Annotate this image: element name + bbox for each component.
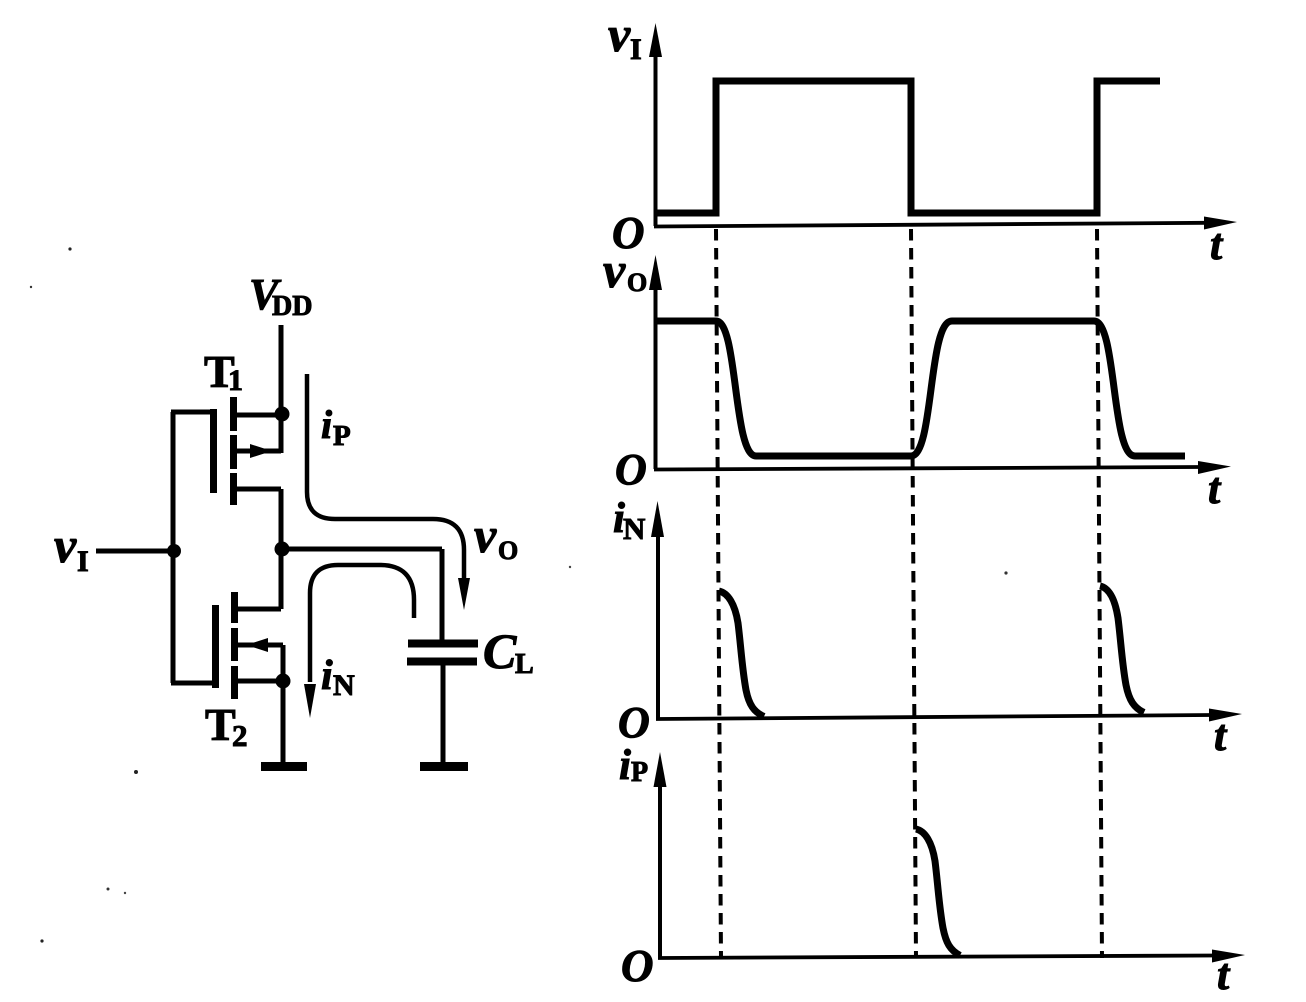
svg-text:t: t <box>1210 220 1224 269</box>
dashed line t1 <box>716 229 721 958</box>
node dot VDD-source junction <box>275 407 290 422</box>
y-axis P1 <box>654 55 658 226</box>
wire T2 drain up to output node <box>237 551 281 609</box>
waveform i_P pulse <box>916 829 960 956</box>
svg-text:O: O <box>621 941 654 991</box>
svg-text:O: O <box>618 698 650 747</box>
svg-text:i: i <box>321 653 333 699</box>
wire T2 source <box>237 679 283 684</box>
svg-text:v: v <box>603 242 626 298</box>
svg-text:O: O <box>498 536 518 565</box>
scan specks <box>68 247 71 250</box>
wire output to capacitor <box>282 549 442 640</box>
x-axis P1 <box>654 223 1206 227</box>
wire T1 source to VDD node <box>236 413 279 418</box>
wire T2 bulk <box>237 645 283 678</box>
svg-text:t: t <box>1217 950 1231 999</box>
svg-text:P: P <box>333 420 351 452</box>
wire T1 drain down to output node <box>237 489 281 547</box>
node dot input junction <box>167 544 181 558</box>
y-axis P3 <box>656 536 660 719</box>
ground bar under T2 <box>261 762 307 771</box>
ground bar under capacitor <box>420 762 468 771</box>
waveform v_I square wave <box>656 81 1160 213</box>
svg-text:DD: DD <box>272 291 312 322</box>
svg-text:P: P <box>631 757 648 788</box>
svg-text:i: i <box>619 742 631 789</box>
transistor Q1 (PMOS T1) gate bar <box>210 409 217 493</box>
waveform i_N pulse 1 <box>719 591 764 717</box>
svg-text:t: t <box>1214 711 1228 760</box>
x-axis P3 <box>656 715 1211 719</box>
capacitor C_L bottom plate <box>407 658 477 666</box>
wire v_I input <box>96 549 173 554</box>
svg-text:N: N <box>623 511 645 546</box>
x-axis P4 <box>658 956 1214 959</box>
wire T2 gate connect <box>171 681 213 686</box>
svg-text:O: O <box>627 268 647 297</box>
svg-text:I: I <box>630 33 642 66</box>
arrowhead T2 bulk (points left) <box>246 638 268 652</box>
transistor Q2 channel segments <box>231 592 238 699</box>
transistor Q1 channel segments <box>230 397 237 505</box>
y-axis P4 <box>658 785 662 958</box>
svg-text:2: 2 <box>232 718 248 753</box>
wire T1 bulk <box>237 415 281 453</box>
arrow i_P current path <box>307 374 464 580</box>
svg-text:1: 1 <box>228 364 243 397</box>
svg-text:i: i <box>321 402 332 447</box>
svg-text:L: L <box>515 649 534 680</box>
arrowhead T1 bulk (points right) <box>250 444 272 458</box>
svg-text:v: v <box>474 507 497 563</box>
x-axis P2 <box>654 467 1200 470</box>
y-axis P2 <box>654 289 658 469</box>
svg-text:v: v <box>608 6 631 62</box>
arrow i_N current path <box>310 565 414 682</box>
wire T1 gate connect <box>171 410 211 415</box>
waveform i_N pulse 2 <box>1100 586 1144 713</box>
svg-text:I: I <box>77 545 89 578</box>
wire to ground <box>281 681 286 763</box>
svg-text:O: O <box>615 445 647 494</box>
node dot source junction <box>276 674 291 689</box>
svg-text:t: t <box>1208 464 1222 513</box>
node dot output junction <box>275 542 290 557</box>
capacitor C_L top plate <box>408 640 478 648</box>
wire VDD vertical <box>279 325 284 412</box>
dashed line t3 <box>1097 229 1102 958</box>
svg-text:v: v <box>54 517 77 573</box>
svg-text:N: N <box>333 669 355 702</box>
transistor Q2 (NMOS T2) gate bar <box>212 605 219 688</box>
wire gate bus vertical <box>171 412 176 683</box>
svg-text:C: C <box>483 623 517 679</box>
waveform v_O <box>656 321 1185 456</box>
wire capacitor to ground <box>441 665 446 763</box>
dashed line t2 <box>911 229 916 958</box>
